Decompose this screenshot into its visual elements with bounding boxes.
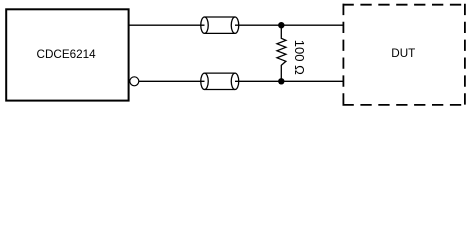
wire: top coax to DUT: [235, 24, 343, 26]
coax transmission line (bottom): [201, 73, 239, 89]
wire: bottom output to coax: [139, 80, 205, 82]
svg-text:100 Ω: 100 Ω: [292, 40, 307, 75]
junction dot (bottom): [278, 78, 284, 84]
junction dot (top): [278, 22, 284, 28]
coax transmission line (top): [201, 17, 239, 33]
wire: top output to coax: [129, 24, 205, 26]
IC U1 CDCE6214: [6, 9, 128, 100]
DUT block (dashed): [343, 4, 466, 106]
svg-text:CDCE6214: CDCE6214: [37, 48, 97, 61]
inversion bubble on complementary output: [130, 77, 139, 86]
wire: bottom coax to DUT: [235, 80, 343, 82]
svg-text:DUT: DUT: [391, 47, 415, 60]
resistor R1 100 Ohm termination: [277, 25, 286, 81]
